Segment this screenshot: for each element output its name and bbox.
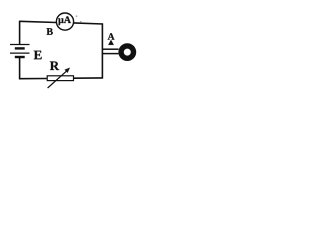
- arrow marker pointing up below label A: [108, 40, 113, 45]
- rheostat R: arrowhead: [65, 68, 70, 73]
- label R (rheostat): [50, 61, 59, 70]
- speck artifact near meter (upper): [76, 15, 78, 17]
- battery E: long plate (cell 1 +): [10, 44, 30, 46]
- rheostat R: diagonal arrow shaft: [48, 71, 67, 88]
- wire: upper lead to ring: [103, 48, 119, 50]
- wire: lower lead to ring: [103, 53, 119, 55]
- ammeter scale label uA: [58, 16, 71, 25]
- battery E: short thick plate (cell 2 -): [15, 56, 25, 58]
- ring (coil) component: [121, 46, 133, 58]
- wire: right side vertical: [101, 23, 103, 78]
- wire: top side, left segment (battery to ammeter): [20, 21, 57, 22]
- wire: bottom side, right segment (corner to rheostat): [74, 77, 103, 79]
- label E (battery): [34, 51, 42, 60]
- battery E: short thick plate (cell 1 -): [15, 47, 25, 49]
- ammeter (microammeter) body: [56, 13, 73, 30]
- battery E: long plate (cell 2 +): [10, 52, 30, 54]
- label A (ring terminal): [108, 33, 115, 39]
- wire: bottom side, left segment (rheostat to bottom-left corner): [19, 78, 47, 80]
- label B (meter): [47, 28, 53, 35]
- wire: left side vertical, upper part (corner to battery +): [19, 21, 21, 45]
- rheostat R: resistor box: [47, 76, 73, 81]
- speck artifact near meter (lower): [80, 21, 81, 22]
- wire: left side vertical, lower part (battery - to corner): [19, 57, 21, 79]
- wire: top side, right segment (ammeter to top-right corner): [74, 23, 103, 24]
